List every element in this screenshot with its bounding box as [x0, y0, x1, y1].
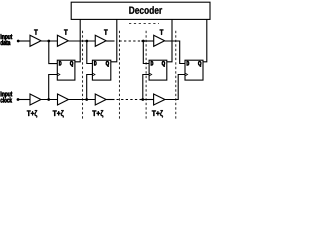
wire: into node D3 and buffer T4 — [141, 40, 154, 42]
tap wire Q2 to decoder — [111, 19, 117, 61]
label: Input clock line1 — [1, 92, 13, 98]
decoder U1 — [71, 2, 210, 19]
wire: Tz3 out solid stub — [106, 99, 114, 101]
FF1 pin D — [59, 61, 61, 65]
buffer T1 (data) — [30, 35, 41, 46]
node C2 — [85, 98, 88, 101]
FF2 pin Q — [106, 61, 109, 67]
label T2 — [64, 30, 68, 35]
wire: T4 out to FF4 D input — [165, 41, 185, 64]
flip-flop FF2 — [92, 60, 110, 80]
label T+z 2 — [53, 110, 64, 117]
buffer Tz3 (clock) — [95, 94, 106, 105]
wire: Tz4 out up to FF4 clock — [165, 75, 185, 100]
wire: Tz1 out to Tz2 — [41, 99, 58, 101]
wire: into clock node 3 and buffer Tz4 — [140, 99, 154, 101]
label: Input data line1 — [1, 34, 13, 40]
wire: clock node 2 up to FF2 clock — [87, 75, 93, 100]
label T4 — [160, 30, 164, 35]
wire: input clock to buffer Tz1 — [18, 99, 30, 101]
flip-flop FF4 — [185, 60, 203, 80]
wire: T3 out solid stub — [106, 40, 114, 42]
node C3 — [141, 98, 144, 101]
dashed stage separator 4 — [175, 31, 177, 120]
FF3 pin D — [151, 61, 153, 65]
dashed stage separator 1 — [82, 31, 84, 120]
tap wire Q3 to decoder — [167, 19, 172, 61]
buffer T4 (data) — [154, 35, 165, 46]
wire: clock node 1 up to FF1 clock — [49, 75, 58, 100]
wire: clock line dashed continuation — [117, 99, 141, 101]
wire: input data to buffer T1 — [18, 40, 30, 42]
buffer Tz1 (clock) — [30, 94, 41, 105]
tap wire Q4 to decoder — [203, 19, 207, 61]
flip-flop FF3 — [149, 60, 167, 80]
dashed stage separator 3 — [145, 31, 147, 120]
node D1 — [47, 40, 50, 43]
label: Input data line2 — [1, 40, 11, 45]
FF4 pin Q — [198, 61, 201, 67]
wire: data node 3 down to FF3 D — [143, 41, 149, 64]
wire: data node 1 down to FF1 D — [49, 41, 58, 64]
FF1 pin Q — [70, 61, 73, 67]
label T+z 4 — [152, 110, 163, 117]
node: input data — [17, 40, 20, 43]
wire: data node 2 down to FF2 D — [87, 41, 93, 64]
label T3 — [104, 30, 108, 35]
label: Decoder — [129, 6, 162, 14]
buffer T3 (data) — [95, 35, 106, 46]
flip-flop FF1 — [57, 60, 75, 80]
FF3 pin Q — [162, 61, 165, 67]
wire: T1 out to T2 in — [41, 40, 57, 42]
buffer T2 (data) — [57, 35, 68, 46]
dashed decoder tap continuation — [129, 23, 159, 25]
buffer Tz2 (clock) — [58, 94, 69, 105]
FF2 pin D — [94, 61, 96, 65]
wire: clock node 3 up to FF3 clock — [143, 75, 149, 100]
wire: T2 out to T3 in — [68, 40, 95, 42]
label T1 — [34, 30, 38, 35]
label T+z 3 — [92, 110, 103, 117]
node D2 — [85, 40, 88, 43]
node D3 — [142, 40, 145, 43]
dashed stage separator 2 — [118, 31, 120, 120]
wire: data line dashed continuation — [119, 40, 141, 42]
label: Input clock line2 — [1, 97, 13, 102]
node C1 — [47, 98, 50, 101]
node: input clock — [17, 98, 20, 101]
wire: Tz2 out to Tz3 — [68, 99, 95, 101]
FF4 pin D — [187, 61, 189, 65]
tap wire Q1 to decoder — [75, 19, 80, 61]
buffer Tz4 (clock) — [154, 94, 165, 105]
label T+z 1 — [27, 110, 37, 117]
